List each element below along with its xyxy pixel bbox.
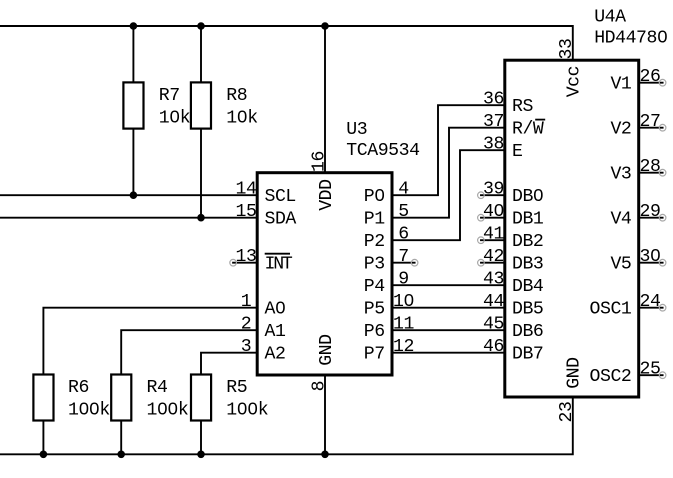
svg-text:13: 13 bbox=[236, 247, 257, 267]
svg-text:3: 3 bbox=[241, 337, 251, 357]
svg-text:E: E bbox=[512, 142, 522, 162]
svg-text:R5: R5 bbox=[226, 378, 247, 398]
svg-text:SCL: SCL bbox=[265, 187, 296, 207]
svg-text:A1: A1 bbox=[265, 322, 286, 342]
svg-text:P5: P5 bbox=[364, 300, 385, 320]
svg-text:R6: R6 bbox=[68, 378, 89, 398]
svg-text:P1: P1 bbox=[364, 210, 385, 230]
svg-text:5: 5 bbox=[398, 202, 408, 222]
svg-text:GND: GND bbox=[317, 334, 337, 365]
svg-text:28: 28 bbox=[640, 157, 661, 177]
svg-text:12: 12 bbox=[393, 337, 414, 357]
svg-text:100k: 100k bbox=[68, 400, 110, 420]
svg-text:29: 29 bbox=[640, 202, 661, 222]
svg-text:45: 45 bbox=[483, 315, 504, 335]
svg-text:30: 30 bbox=[640, 247, 661, 267]
svg-text:P7: P7 bbox=[364, 345, 385, 365]
svg-text:A0: A0 bbox=[265, 300, 286, 320]
svg-text:Vcc: Vcc bbox=[565, 66, 585, 97]
svg-text:OSC2: OSC2 bbox=[590, 367, 632, 387]
svg-text:P0: P0 bbox=[364, 187, 385, 207]
svg-text:P6: P6 bbox=[364, 322, 385, 342]
svg-text:U3: U3 bbox=[346, 120, 367, 140]
svg-text:37: 37 bbox=[483, 112, 504, 132]
svg-text:DB3: DB3 bbox=[512, 255, 543, 275]
svg-text:V3: V3 bbox=[610, 165, 631, 185]
svg-text:7: 7 bbox=[398, 247, 408, 267]
svg-text:38: 38 bbox=[483, 135, 504, 155]
svg-text:46: 46 bbox=[483, 337, 504, 357]
svg-text:RS: RS bbox=[512, 97, 533, 117]
svg-text:9: 9 bbox=[398, 270, 408, 290]
svg-text:DB6: DB6 bbox=[512, 322, 543, 342]
svg-text:DB1: DB1 bbox=[512, 210, 544, 230]
svg-text:V1: V1 bbox=[610, 75, 631, 95]
svg-text:TCA9534: TCA9534 bbox=[346, 141, 419, 161]
svg-text:P2: P2 bbox=[364, 232, 385, 252]
svg-text:P3: P3 bbox=[364, 255, 385, 275]
svg-text:14: 14 bbox=[236, 180, 257, 200]
svg-text:R8: R8 bbox=[226, 86, 247, 106]
svg-text:41: 41 bbox=[483, 225, 504, 245]
svg-text:26: 26 bbox=[640, 67, 661, 87]
svg-text:V4: V4 bbox=[610, 210, 631, 230]
svg-text:VDD: VDD bbox=[317, 179, 337, 210]
svg-text:100k: 100k bbox=[226, 400, 268, 420]
svg-text:R/W: R/W bbox=[512, 120, 544, 140]
svg-text:R4: R4 bbox=[147, 378, 168, 398]
svg-text:15: 15 bbox=[236, 202, 257, 222]
svg-text:33: 33 bbox=[557, 39, 577, 60]
svg-text:100k: 100k bbox=[147, 400, 189, 420]
svg-text:2: 2 bbox=[241, 315, 251, 335]
svg-text:R7: R7 bbox=[159, 86, 180, 106]
svg-text:GND: GND bbox=[565, 357, 585, 388]
svg-text:4: 4 bbox=[398, 180, 408, 200]
svg-text:DB2: DB2 bbox=[512, 232, 543, 252]
svg-text:36: 36 bbox=[483, 90, 504, 110]
svg-text:11: 11 bbox=[393, 315, 414, 335]
svg-text:43: 43 bbox=[483, 270, 504, 290]
svg-text:DB7: DB7 bbox=[512, 345, 543, 365]
svg-text:HD44780: HD44780 bbox=[594, 28, 667, 48]
svg-text:42: 42 bbox=[483, 247, 504, 267]
svg-text:SDA: SDA bbox=[265, 210, 297, 230]
svg-text:25: 25 bbox=[640, 360, 661, 380]
svg-text:1: 1 bbox=[241, 292, 252, 312]
svg-text:10: 10 bbox=[393, 292, 414, 312]
svg-text:A2: A2 bbox=[265, 345, 286, 365]
svg-text:6: 6 bbox=[398, 225, 408, 245]
svg-text:DB4: DB4 bbox=[512, 277, 543, 297]
svg-text:OSC1: OSC1 bbox=[590, 300, 632, 320]
svg-text:40: 40 bbox=[483, 202, 504, 222]
svg-text:U4A: U4A bbox=[594, 7, 626, 27]
svg-text:16: 16 bbox=[309, 151, 329, 172]
svg-text:P4: P4 bbox=[364, 277, 385, 297]
svg-text:27: 27 bbox=[640, 112, 661, 132]
svg-text:DB5: DB5 bbox=[512, 300, 543, 320]
svg-text:23: 23 bbox=[557, 402, 577, 423]
svg-text:INT: INT bbox=[265, 255, 293, 275]
svg-text:24: 24 bbox=[640, 292, 661, 312]
svg-text:V5: V5 bbox=[610, 255, 631, 275]
svg-text:V2: V2 bbox=[610, 120, 631, 140]
svg-text:44: 44 bbox=[483, 292, 504, 312]
svg-text:39: 39 bbox=[483, 180, 504, 200]
svg-text:8: 8 bbox=[309, 381, 329, 391]
